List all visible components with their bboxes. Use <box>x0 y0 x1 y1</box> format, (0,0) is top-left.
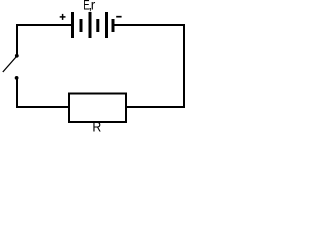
wire right side <box>183 24 185 108</box>
battery E,r plate 5 long <box>105 12 108 38</box>
svg-text:r: r <box>91 0 96 12</box>
battery E,r plate 6 short (-) <box>112 19 115 32</box>
resistor value label R <box>92 119 101 134</box>
battery value label E,r <box>83 0 96 12</box>
resistor R box <box>69 94 126 123</box>
wire left lower segment <box>16 79 18 108</box>
wire bottom-left segment <box>16 106 69 108</box>
switch S top contact node <box>15 54 19 58</box>
battery polarity + label <box>60 14 66 20</box>
svg-text:R: R <box>92 119 101 134</box>
battery E,r plate 2 short <box>80 19 83 32</box>
battery E,r plate 1 long (+) <box>71 12 74 38</box>
wire left upper segment <box>16 24 18 55</box>
battery polarity - label <box>116 16 121 18</box>
battery E,r plate 4 short <box>96 19 99 32</box>
wire top-right segment <box>115 24 186 26</box>
wire bottom-right segment <box>126 106 185 108</box>
battery E,r plate 3 long <box>89 12 92 38</box>
wire top-left segment <box>16 24 71 26</box>
switch S blade (open) <box>3 57 16 72</box>
switch S bottom contact node <box>15 76 19 80</box>
